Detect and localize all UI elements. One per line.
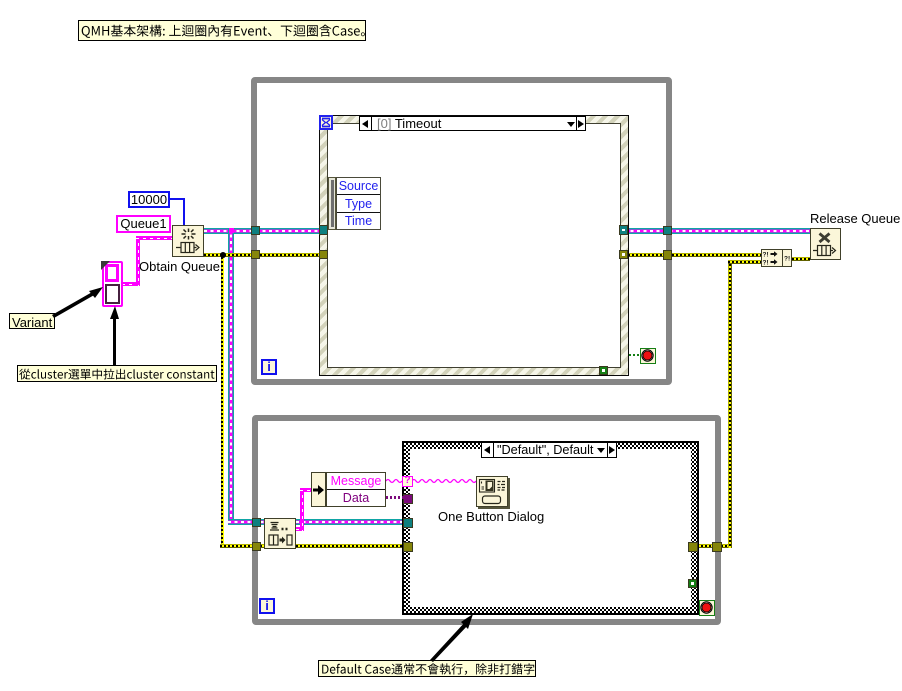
wire: queue from dequeue to case tunnel	[296, 519, 408, 525]
wire: magenta cluster to Obtain Queue	[122, 282, 140, 286]
wire: queue vertical branch down to bottom loop	[228, 228, 234, 525]
wire: pink wavy string wire from ? tunnel to dialog	[412, 477, 476, 485]
comment label: Variant	[9, 313, 55, 329]
wire: error vertical up to merge errors	[728, 260, 732, 548]
comment label: QMH	[78, 20, 366, 41]
while loop 1 (top) border	[251, 77, 672, 385]
Obtain Queue icon	[172, 225, 204, 257]
tunnel: bottom loop left error	[252, 542, 261, 551]
wire: merge errors output to Release Queue	[792, 257, 810, 261]
event data node (Source/Type/Time)	[328, 177, 336, 230]
wire: error dequeue to case tunnel	[296, 544, 408, 548]
Merge Errors node	[761, 249, 792, 267]
event structure selector label "[0] Timeout"	[359, 116, 586, 131]
tunnel: bottom loop right error	[712, 542, 722, 552]
tunnel: event left queue	[319, 225, 328, 235]
comment label: default case hint	[318, 660, 536, 677]
arrow: cluster hint to cluster	[110, 306, 119, 365]
tunnel: top loop right queue	[663, 226, 673, 236]
tunnel: event right error (with dot)	[619, 250, 628, 259]
cluster fold corner triangle	[101, 261, 110, 270]
wire: queue out of Obtain Queue to event structure	[204, 228, 324, 234]
junction: queue branch dot	[229, 228, 234, 233]
tunnel: case right error	[688, 542, 698, 552]
tunnel: event bottom boolean (green)	[599, 366, 608, 375]
tunnel: case left string "?"	[402, 476, 413, 487]
free label: Obtain Queue	[139, 259, 220, 274]
wire: error case right tunnel to outside loop, turn up	[697, 544, 732, 548]
loop 2 stop terminal	[699, 600, 715, 616]
tunnel: top loop left error	[251, 250, 260, 259]
constant: 10000	[128, 191, 170, 208]
wire: error vertical branch down to bottom loop	[221, 253, 225, 546]
tunnel: top loop left queue	[251, 226, 260, 235]
tunnel: case left queue	[403, 518, 413, 528]
constant: cluster with string + variant	[102, 261, 123, 307]
wire: pink wavy string wire from Message to ? tunnel	[386, 477, 404, 485]
wire: blue 10000 to Obtain Queue	[170, 198, 185, 200]
wire: queue from event right tunnel to Release Queue	[624, 228, 810, 234]
tunnel: top loop right error	[663, 250, 673, 260]
event structure timeout hourglass terminal	[319, 115, 333, 130]
wire: green dotted to stop terminal	[629, 354, 640, 356]
wire: error out of Obtain Queue to event structure	[204, 253, 324, 257]
wire: purple dotted variant wire Data to tunnel	[386, 496, 404, 499]
tunnel: case left variant (purple)	[403, 494, 413, 504]
junction: error branch dot	[220, 252, 226, 258]
wire: magenta element out of dequeue up to unbundle	[296, 527, 304, 531]
One Button Dialog icon	[476, 476, 508, 507]
tunnel: case left error	[403, 542, 413, 552]
wire: error into dequeue	[220, 544, 268, 548]
tunnel: event right queue (with dot)	[619, 225, 628, 235]
wire: error from event right tunnel to merge errors	[624, 253, 761, 257]
tunnel: case right boolean green	[688, 579, 697, 588]
arrow: Variant label to cluster	[52, 287, 103, 318]
while loop 2 (bottom) border	[252, 415, 721, 625]
loop 2 iteration terminal i	[259, 598, 275, 614]
tunnel: event left error	[319, 250, 328, 259]
Dequeue Element icon	[264, 518, 296, 549]
Release Queue icon	[810, 228, 841, 260]
event structure border (hatched)	[319, 115, 629, 376]
comment label: cluster hint	[17, 365, 217, 382]
constant: Queue1	[116, 215, 171, 233]
case structure border (checkered)	[402, 441, 699, 615]
tunnel: bottom loop left queue	[252, 518, 261, 527]
free label: Release Queue	[810, 211, 900, 226]
loop 1 stop (condition) terminal	[640, 348, 656, 364]
Unbundle By Name node (Message/Data)	[311, 472, 326, 507]
case structure selector label "Default", Default	[481, 442, 617, 458]
arrow: default hint to case structure	[430, 614, 473, 662]
wire: error horizontal into merge bottom input	[728, 260, 761, 264]
wire: queue horizontal into bottom loop dequeue	[228, 519, 268, 525]
loop 1 iteration terminal i	[261, 359, 277, 375]
free label: One Button Dialog	[438, 509, 544, 524]
wire: error across case interior	[408, 544, 692, 548]
